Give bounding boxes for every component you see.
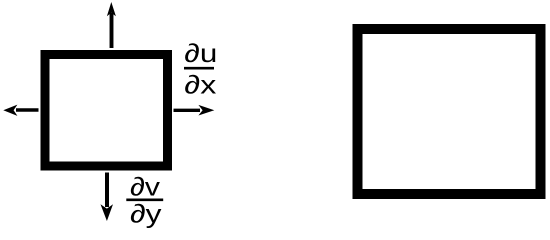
label du/dx (184, 38, 217, 100)
plain square (right) (358, 29, 541, 194)
svg-text:∂v: ∂v (130, 172, 160, 202)
svg-text:∂x: ∂x (184, 69, 216, 99)
fluid element square (left) (45, 55, 168, 167)
svg-text:∂u: ∂u (184, 38, 217, 68)
arrow down (101, 173, 114, 222)
svg-text:∂y: ∂y (130, 199, 162, 229)
arrow right (174, 105, 215, 116)
arrow left (3, 105, 38, 116)
arrow up (107, 2, 116, 48)
label dv/dy (126, 172, 163, 229)
